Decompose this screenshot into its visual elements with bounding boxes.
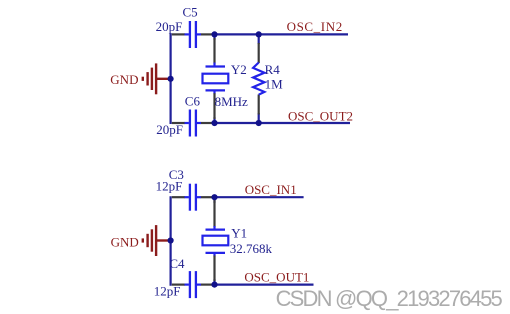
svg-text:32.768k: 32.768k — [230, 241, 273, 256]
svg-text:OSC_IN1: OSC_IN1 — [245, 182, 297, 197]
svg-text:20pF: 20pF — [156, 122, 183, 137]
svg-text:8MHz: 8MHz — [215, 94, 248, 109]
svg-text:Y1: Y1 — [231, 226, 247, 241]
svg-text:12pF: 12pF — [156, 178, 183, 193]
svg-text:20pF: 20pF — [156, 19, 183, 34]
svg-text:12pF: 12pF — [154, 283, 181, 298]
svg-text:OSC_OUT1: OSC_OUT1 — [244, 269, 309, 284]
svg-text:OSC_IN2: OSC_IN2 — [287, 19, 343, 34]
svg-text:GND: GND — [110, 72, 138, 87]
svg-text:C4: C4 — [169, 256, 185, 271]
svg-text:GND: GND — [111, 234, 139, 249]
svg-text:1M: 1M — [265, 77, 284, 92]
svg-text:C5: C5 — [183, 5, 198, 20]
svg-text:Y2: Y2 — [231, 62, 247, 77]
svg-text:OSC_OUT2: OSC_OUT2 — [288, 109, 353, 124]
svg-text:R4: R4 — [265, 62, 281, 77]
svg-text:CSDN @QQ_2193276455: CSDN @QQ_2193276455 — [276, 286, 503, 311]
svg-text:C6: C6 — [185, 94, 201, 109]
